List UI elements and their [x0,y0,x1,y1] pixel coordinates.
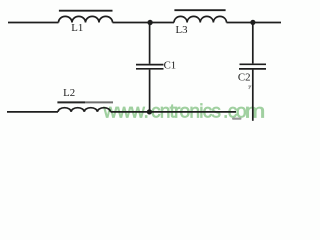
wire C2 bottom lead [252,70,254,121]
svg-text:C2: C2 [238,72,251,84]
node junction of L3/C2 [250,20,255,25]
wire bottom middle [111,111,237,113]
wire top-left input [8,22,59,24]
capacitor C2 [239,64,266,69]
watermark www.cntronics.com [102,100,265,122]
wire top middle [113,22,175,24]
wire C2 top lead [252,23,254,63]
node junction of L1/L3/C1 [147,20,152,25]
node junction of bottom rail and C1 [147,109,152,114]
ghost mark under C2 label [248,86,250,89]
svg-text:L2: L2 [63,87,75,99]
smudge mark near bottom wire end [232,118,242,120]
wire C1 bottom lead [149,70,151,112]
wire top right [227,22,282,24]
wire bottom-left input [7,111,58,113]
svg-text:C1: C1 [164,59,177,71]
svg-text:L3: L3 [176,24,188,36]
wire C1 top lead [149,23,151,64]
svg-text:m: m [245,100,266,122]
capacitor C1 [136,65,164,69]
inductor L3 [174,10,227,22]
inductor L2 [57,102,113,112]
inductor L1 [59,11,113,23]
svg-text:L1: L1 [71,22,83,34]
